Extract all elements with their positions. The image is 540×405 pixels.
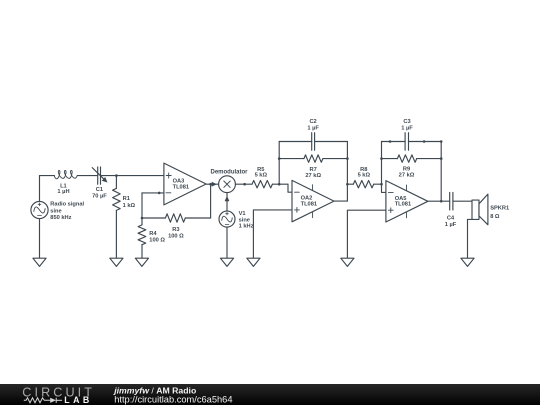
junction node R5 / OA2 feedback <box>278 183 281 186</box>
svg-text:http://circuitlab.com/c6a5h64: http://circuitlab.com/c6a5h64 <box>114 395 232 405</box>
svg-text:C3: C3 <box>403 119 410 125</box>
svg-text:5 kΩ: 5 kΩ <box>358 173 371 179</box>
junction node R8 / OA5 feedback <box>380 183 383 186</box>
resistor R5 5 kOhm <box>252 181 272 188</box>
resistor R8 5 kOhm <box>347 183 353 185</box>
wire feedback up to OA3 output <box>210 184 212 218</box>
OA2 power pins <box>312 185 314 191</box>
junction OA5 output node <box>440 200 443 203</box>
op-amp OA2 TL081 <box>292 180 334 221</box>
wire to OA3 inverting input <box>142 192 164 194</box>
resistor R3 100 Ohm <box>142 217 165 219</box>
junction node R3/R4 <box>141 217 144 220</box>
wire feedback down <box>141 193 143 218</box>
svg-text:LAB: LAB <box>64 395 92 405</box>
wire OA2 output <box>334 200 347 202</box>
wire OA5 noninverting input to ground <box>347 210 386 258</box>
svg-text:C1: C1 <box>96 187 103 193</box>
wire S1 top lead <box>39 176 41 202</box>
svg-text:5 kΩ: 5 kΩ <box>255 173 268 179</box>
capacitor C4 1 uF <box>449 192 451 210</box>
op-amp OA5 TL081 <box>386 181 428 222</box>
wire speaker to ground <box>468 219 473 258</box>
svg-text:R1: R1 <box>123 196 130 202</box>
junction C3 left terminal node <box>389 140 392 143</box>
svg-text:1 µF: 1 µF <box>307 126 319 132</box>
svg-text:TL081: TL081 <box>173 184 189 190</box>
wire OA5 feedback left vertical <box>382 142 386 193</box>
wire S1 to ground <box>39 219 41 259</box>
wire OA5 output to C4 <box>428 200 450 202</box>
wire C3/R9 right vertical <box>440 142 442 202</box>
svg-text:70 µF: 70 µF <box>92 194 107 200</box>
wire C1 to OA3 noninverting input <box>101 175 164 177</box>
junction node R7 right <box>346 157 349 160</box>
svg-text:R4: R4 <box>149 231 157 237</box>
resistor R4 100 Ohm <box>141 218 143 225</box>
svg-text:R3: R3 <box>172 227 179 233</box>
resistor R1 1 kOhm <box>115 176 117 189</box>
wire OA3 output to demodulator <box>206 183 219 185</box>
ground (OA5 +) <box>341 258 354 266</box>
signal flow arrow into demodulator <box>212 182 217 187</box>
svg-text:1 µH: 1 µH <box>57 189 69 195</box>
svg-text:1 kHz: 1 kHz <box>239 224 254 230</box>
svg-text:V1: V1 <box>239 211 246 217</box>
wire V1 to demodulator with arrow <box>226 193 228 211</box>
wire feedback right vertical <box>346 142 348 202</box>
ground (OA2 +) <box>247 258 260 266</box>
resistor R7 27 kOhm <box>279 158 304 160</box>
svg-text:sine: sine <box>50 208 61 214</box>
wire C4 to speaker <box>453 200 472 202</box>
junction node R9 right <box>440 157 443 160</box>
wire L1 to C1 <box>77 175 97 177</box>
wire jog to OA2 inverting input <box>288 184 292 192</box>
op-amp OA3 TL081 <box>164 163 206 205</box>
ground (SPKR1) <box>461 258 474 266</box>
wire S1 to L1 <box>40 175 55 177</box>
svg-text:1 µF: 1 µF <box>445 222 457 228</box>
junction node R8 branch <box>346 183 349 186</box>
svg-text:sine: sine <box>239 217 250 223</box>
wire demodulator to R5 <box>235 183 252 185</box>
svg-text:SPKR1: SPKR1 <box>490 206 509 212</box>
junction OA3 output node <box>209 183 212 186</box>
junction node top right corner <box>440 140 443 143</box>
junction demodulator output node <box>243 183 246 186</box>
svg-text:C2: C2 <box>309 119 316 125</box>
wire OA2 noninverting input to ground <box>253 210 292 258</box>
svg-text:1 µF: 1 µF <box>401 126 413 132</box>
svg-text:1 kΩ: 1 kΩ <box>123 203 136 209</box>
svg-text:8 Ω: 8 Ω <box>490 214 500 220</box>
svg-text:TL081: TL081 <box>301 201 317 207</box>
wire V1 to ground <box>226 227 228 258</box>
ground (R1) <box>110 258 123 266</box>
svg-text:Radio signal: Radio signal <box>50 202 84 208</box>
junction node at R1 top <box>115 174 118 177</box>
capacitor C3 1 uF <box>382 141 406 143</box>
svg-text:100 Ω: 100 Ω <box>149 238 165 244</box>
svg-text:27 kΩ: 27 kΩ <box>305 173 321 179</box>
multiplier "Demodulator" <box>219 176 236 193</box>
svg-text:850 kHz: 850 kHz <box>50 215 71 221</box>
resistor R9 27 kOhm <box>382 158 398 160</box>
svg-text:100 Ω: 100 Ω <box>168 233 184 239</box>
variable capacitor C1 70 uF <box>97 167 99 184</box>
junction OA3 inverting pin node <box>158 192 161 195</box>
capacitor C2 1 uF <box>279 141 312 143</box>
svg-text:27 kΩ: 27 kΩ <box>399 173 415 179</box>
speaker SPKR1 8 Ohm <box>472 200 479 219</box>
svg-text:TL081: TL081 <box>395 202 411 208</box>
junction C3 right terminal node <box>423 140 426 143</box>
voltage source S1 "Radio signal" <box>31 201 48 218</box>
junction node R7 left <box>278 157 281 160</box>
inductor L1 1 uH <box>54 170 77 178</box>
voltage source V1 sine 1 kHz <box>219 211 235 227</box>
ground (V1) <box>220 258 233 266</box>
junction node R9 left <box>380 157 383 160</box>
svg-text:C4: C4 <box>447 215 455 221</box>
wire feedback left vertical <box>278 142 280 185</box>
ground (R4) <box>135 258 148 266</box>
svg-text:R7: R7 <box>310 167 317 173</box>
svg-text:Demodulator: Demodulator <box>210 169 248 175</box>
OA5 power pins <box>406 185 408 191</box>
ground (S1) <box>33 258 46 266</box>
